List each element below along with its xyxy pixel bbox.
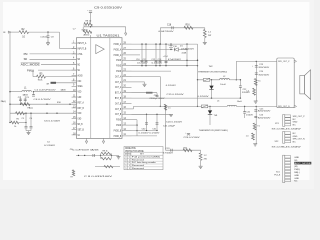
svg-text:47uF/100V: 47uF/100V	[168, 59, 182, 61]
capacitor C26b 820/100V	[254, 115, 257, 117]
junction	[244, 106, 245, 107]
junction	[211, 79, 212, 80]
svg-text:M3: M3	[78, 57, 81, 61]
junction	[111, 155, 112, 156]
pin notch N	[294, 105, 296, 108]
svg-text:PVDD_A: PVDD_A	[114, 53, 122, 57]
diode D2 thermistor A	[211, 80, 213, 98]
junction	[165, 106, 166, 107]
wire	[46, 76, 77, 78]
svg-text:1/100V: 1/100V	[246, 114, 254, 116]
junction	[197, 79, 198, 80]
wire	[29, 31, 60, 33]
svg-text:BST_A: BST_A	[115, 91, 122, 95]
svg-text:NC: NC	[293, 119, 297, 121]
pin 18 BST_B	[122, 97, 132, 99]
capacitor C24 820/100V	[255, 72, 258, 74]
junction	[186, 60, 187, 61]
svg-text:RST_B: RST_B	[78, 106, 85, 110]
wire OUT_B trunk	[132, 108, 134, 110]
svg-text:0.1uF/100V 3A/1B: 0.1uF/100V 3A/1B	[73, 148, 100, 151]
svg-text:M3_B: M3_B	[78, 122, 83, 126]
pin 19 BST_A	[122, 92, 132, 94]
svg-text:OUT_B: OUT_B	[115, 107, 122, 111]
pin 9 VREG	[72, 85, 77, 87]
svg-text:Reserved: Reserved	[132, 158, 145, 161]
svg-text:NC: NC	[293, 141, 297, 143]
wire	[10, 112, 77, 114]
svg-text:GND: GND	[294, 175, 299, 177]
junction	[146, 114, 147, 115]
resistor R20	[252, 133, 255, 140]
resistor R15 1.2 2W	[204, 28, 206, 30]
wire snubber column	[255, 61, 257, 101]
pin 5 M2	[72, 64, 77, 66]
pin 15 GND	[72, 118, 77, 120]
svg-text:PGND: PGND	[116, 64, 121, 68]
wire BST_A vertical	[159, 28, 161, 44]
resistor R23 small	[164, 104, 166, 110]
capacitor C22 1/100V	[239, 80, 241, 86]
wire trunk riser at 236	[235, 61, 237, 79]
junction	[145, 43, 146, 44]
wire vertical 197 lower	[197, 80, 199, 107]
junction	[197, 65, 198, 66]
junction	[170, 49, 171, 50]
junction	[146, 130, 147, 131]
wire	[11, 31, 19, 33]
pin 16 M3_B	[72, 123, 77, 125]
speaker terminal box	[277, 58, 294, 108]
svg-text:SPK_OUT_P: SPK_OUT_P	[293, 116, 306, 118]
wire bottom cap rows	[132, 130, 158, 132]
junction	[90, 26, 91, 27]
svg-text:OUT_A: OUT_A	[115, 80, 122, 84]
svg-text:PGND: PGND	[116, 69, 121, 73]
pin 27 PVDD_A	[122, 49, 132, 51]
wire stub row 3	[132, 54, 141, 56]
svg-text:4148: 4148	[182, 53, 188, 55]
pin 11 PVDD_B	[122, 135, 132, 137]
svg-text:C12: C12	[151, 59, 155, 61]
pin 1 INPUT_A	[72, 42, 77, 44]
junction	[46, 113, 47, 114]
connector X22 ST-COM-4S-CN4W	[272, 132, 306, 149]
pin 8 OSC	[72, 80, 77, 82]
pin 23 PGND	[122, 70, 132, 72]
ground mid 171	[169, 113, 173, 115]
svg-text:GND: GND	[294, 157, 299, 159]
wire BST_A row	[160, 27, 205, 29]
connector X21 ST-COM-4S-CN4W	[272, 115, 306, 131]
svg-text:OUT_B: OUT_B	[115, 101, 122, 105]
svg-text:U1 TAS5261: U1 TAS5261	[97, 35, 121, 38]
svg-text:THERMISTOR (SWITCHED): THERMISTOR (SWITCHED)	[199, 130, 228, 132]
svg-text:SPK_OUT_N: SPK_OUT_N	[278, 106, 290, 108]
junction	[9, 91, 10, 92]
ground AGND arrow	[47, 41, 49, 43]
svg-text:0.1/100V: 0.1/100V	[149, 133, 160, 135]
svg-text:VDD: VDD	[78, 111, 82, 115]
svg-text:AVDD: AVDD	[84, 33, 90, 36]
pin 11 GND	[72, 96, 77, 98]
wire PVDD_A top row	[132, 43, 198, 45]
svg-text:1.0: 1.0	[246, 135, 249, 137]
wire	[91, 24, 93, 27]
svg-text:0.1/100V: 0.1/100V	[44, 145, 56, 147]
svg-text:820/100V: 820/100V	[258, 117, 272, 119]
wire	[10, 91, 22, 93]
svg-text:7.5: 7.5	[257, 125, 260, 127]
wire bottom RC row	[76, 154, 116, 156]
svg-text:3A1B: 3A1B	[23, 94, 29, 97]
svg-text:R7: R7	[71, 177, 73, 179]
pin 22 OUT_A	[122, 76, 132, 78]
pin 15 OUT_B	[122, 113, 132, 115]
pin 18 NC	[72, 134, 77, 136]
junction	[186, 49, 187, 50]
junction	[160, 43, 161, 44]
junction	[78, 155, 79, 156]
svg-text:C6 0.1/100V: C6 0.1/100V	[44, 121, 61, 123]
capacitor C25 820/100V	[254, 109, 257, 111]
svg-text:NC: NC	[293, 125, 297, 127]
wire trunk to speaker	[236, 60, 276, 62]
svg-text:AGND: AGND	[78, 73, 83, 77]
svg-text:10uH: 10uH	[220, 84, 226, 86]
junction	[155, 65, 156, 66]
svg-text:PGND: PGND	[116, 123, 121, 127]
junction	[25, 104, 26, 105]
svg-text:ADC_MODE: ADC_MODE	[21, 63, 40, 67]
svg-text:0.1/100V: 0.1/100V	[152, 63, 163, 65]
svg-text:NC: NC	[294, 181, 298, 183]
junction	[186, 43, 187, 44]
junction	[186, 65, 187, 66]
svg-text:R8 10: R8 10	[86, 21, 92, 23]
junction	[197, 106, 198, 107]
svg-text:PA(L): PA(L)	[1, 100, 7, 103]
svg-text:3A1B: 3A1B	[61, 89, 67, 92]
wire vertical 187	[186, 44, 188, 66]
svg-text:0.1/100V: 0.1/100V	[166, 85, 177, 87]
resistor R18	[253, 88, 256, 95]
wire	[32, 70, 34, 77]
junction	[25, 122, 26, 123]
svg-text:PM(L): PM(L)	[294, 169, 300, 171]
junction	[170, 43, 171, 44]
pin PVDD bottom stub	[103, 138, 105, 141]
svg-text:PC1-8: PC1-8	[274, 175, 281, 177]
pin 16 OUT_B	[122, 108, 132, 110]
junction	[209, 106, 210, 107]
svg-text:PVDD_A: PVDD_A	[114, 42, 122, 46]
svg-text:ST-COM-4S-CN4W: ST-COM-4S-CN4W	[272, 146, 301, 148]
junction	[30, 113, 31, 114]
junction	[141, 65, 142, 66]
junction	[236, 79, 237, 80]
wire	[34, 91, 77, 93]
svg-text:OUT_A: OUT_A	[115, 74, 122, 78]
svg-text:SD: SD	[24, 57, 28, 61]
resistor R10 parallel	[100, 155, 102, 158]
svg-text:PA(L): PA(L)	[28, 107, 34, 110]
svg-text:PGND: PGND	[116, 118, 121, 122]
svg-text:C 8 0.033/100V: C 8 0.033/100V	[84, 176, 113, 178]
svg-text:C32: C32	[246, 111, 250, 113]
svg-text:0R: 0R	[47, 83, 50, 85]
ferrite bead L3	[146, 92, 153, 94]
svg-text:Reserved: Reserved	[132, 164, 145, 167]
junction	[25, 113, 26, 114]
svg-text:1.5: 1.5	[168, 108, 171, 110]
svg-text:10uH: 10uH	[237, 101, 242, 103]
ground bottom row	[116, 154, 119, 156]
svg-text:DC latching mode: DC latching mode	[132, 161, 157, 164]
svg-text:VDD: VDD	[78, 90, 82, 94]
svg-text:SET_B: SET_B	[78, 127, 85, 131]
page background	[0, 0, 314, 189]
pin 14 PGND	[122, 119, 132, 121]
svg-text:PA(L): PA(L)	[294, 171, 300, 174]
ground caps C5 C6	[25, 128, 27, 130]
svg-text:GND: GND	[78, 95, 82, 99]
pin 12 PVDD_B	[122, 130, 132, 132]
junction	[136, 124, 137, 125]
junction	[56, 113, 57, 114]
svg-text:C20 0.1/100V: C20 0.1/100V	[166, 122, 183, 124]
junction	[84, 155, 85, 156]
wire	[30, 58, 77, 60]
junction	[9, 122, 10, 123]
junction	[240, 79, 241, 80]
wire BST_B row	[166, 149, 201, 151]
junction	[145, 65, 146, 66]
wire vertical 160 to OUT_B row	[159, 77, 161, 107]
svg-text:820/100V: 820/100V	[259, 67, 270, 69]
junction	[156, 114, 157, 115]
pin GND bottom stub	[86, 138, 88, 141]
wire gnd stub row	[132, 81, 145, 83]
pin 17 OUT_B	[122, 103, 132, 105]
svg-text:0.1/100V: 0.1/100V	[137, 63, 148, 65]
svg-text:INPUT_A: INPUT_A	[78, 41, 87, 45]
junction	[47, 31, 48, 32]
junction	[159, 65, 160, 66]
svg-text:0.1/100V: 0.1/100V	[139, 133, 150, 135]
svg-text:CTRL: CTRL	[78, 52, 83, 56]
svg-text:C21 220pF: C21 220pF	[163, 126, 176, 128]
pin 26 PVDD_A	[122, 54, 132, 56]
wire row R5	[132, 70, 172, 72]
wire PGND row R13 ext	[132, 113, 147, 115]
svg-text:C1 0.47uF/100V: C1 0.47uF/100V	[35, 90, 57, 92]
pin 21 OUT_A	[122, 81, 132, 83]
wire ferrite row	[132, 92, 158, 94]
junction	[240, 97, 241, 98]
svg-text:OSC: OSC	[78, 79, 82, 83]
junction	[155, 43, 156, 44]
wire into IC top GVDD	[90, 35, 92, 38]
svg-text:VREG: VREG	[78, 84, 83, 88]
svg-text:NC: NC	[293, 133, 297, 135]
junction	[136, 130, 137, 131]
resistor R7 lower	[72, 170, 74, 176]
junction	[165, 65, 166, 66]
svg-text:820/100V: 820/100V	[258, 111, 272, 113]
wire	[83, 24, 85, 27]
pin 2 INPUT_B	[72, 48, 77, 50]
wire row 4 PGND	[132, 59, 198, 61]
pin 28 PVDD_A	[122, 43, 132, 45]
net ADC_MODE highlighted	[294, 162, 311, 165]
svg-text:2W: 2W	[204, 158, 207, 160]
pin 24 PGND	[122, 65, 132, 67]
svg-text:C9 0.033/100V: C9 0.033/100V	[94, 7, 123, 9]
svg-text:Full protection(SM): Full protection(SM)	[132, 155, 160, 158]
svg-text:2W: 2W	[208, 35, 211, 37]
svg-text:C26 0.1/100V: C26 0.1/100V	[184, 137, 201, 139]
pin 13 PGND	[122, 124, 132, 126]
ground snubber A	[254, 100, 258, 102]
svg-text:RST_A: RST_A	[78, 100, 85, 104]
junction	[100, 155, 101, 156]
connector X11 PC1-8	[274, 155, 311, 183]
svg-text:C4 0.1/100V: C4 0.1/100V	[34, 99, 52, 101]
junction	[46, 104, 47, 105]
diode D3 thermistor B	[209, 106, 211, 125]
svg-text:PGND: PGND	[116, 58, 121, 62]
pin 4 M3	[72, 58, 77, 60]
junction	[160, 106, 161, 107]
resistor R17 7.5	[254, 79, 257, 86]
svg-text:NC: NC	[78, 133, 81, 137]
svg-text:GND: GND	[78, 117, 82, 121]
svg-text:Reserved: Reserved	[132, 167, 145, 170]
svg-text:GND: GND	[294, 178, 299, 180]
junction	[211, 97, 212, 98]
svg-text:THERMISTOR (SWITCHED): THERMISTOR (SWITCHED)	[198, 72, 227, 74]
junction	[159, 43, 160, 44]
svg-text:(M): (M)	[294, 166, 297, 168]
wire OUT row R10	[132, 97, 241, 99]
ground snubber B	[253, 143, 257, 145]
wire GVDD rail	[84, 26, 126, 28]
wire	[10, 103, 77, 105]
thermistor TH1 body	[201, 105, 207, 108]
ground BST top	[203, 41, 207, 43]
wire PGND row to ground	[132, 113, 172, 115]
svg-text:M1: M1	[78, 68, 81, 72]
junction	[197, 60, 198, 61]
junction	[165, 43, 166, 44]
svg-text:1.0: 1.0	[246, 91, 249, 93]
svg-text:PVDD_A: PVDD_A	[114, 47, 122, 51]
pin notch P	[294, 60, 296, 63]
wire BST_B feed down	[165, 106, 167, 150]
junction	[256, 106, 257, 107]
svg-text:OUT_A: OUT_A	[115, 85, 122, 89]
svg-text:ADC_MODE: ADC_MODE	[295, 162, 312, 165]
capacitor C17	[156, 93, 158, 96]
svg-text:INPUT_B: INPUT_B	[78, 46, 87, 50]
svg-text:0.1/100V: 0.1/100V	[198, 96, 210, 98]
capacitor C16 polarized	[170, 44, 172, 45]
svg-text:0.047/100V: 0.047/100V	[159, 31, 175, 33]
wire OUT_A trunk	[132, 65, 198, 67]
svg-text:PVDD_B: PVDD_B	[114, 128, 122, 132]
wire input to U1 pin 2	[59, 32, 61, 48]
ground BST bottom	[199, 165, 203, 167]
capacitor C32 1/100V	[244, 106, 246, 111]
wire snubber column B	[255, 106, 257, 143]
svg-text:GND: GND	[293, 122, 298, 124]
capacitor C26	[187, 132, 190, 134]
mode table	[124, 147, 163, 170]
svg-text:C15 0.1/100V: C15 0.1/100V	[167, 94, 185, 96]
svg-text:PM: PM	[24, 52, 28, 56]
junction	[156, 130, 157, 131]
svg-text:47uF/100V: 47uF/100V	[181, 49, 195, 51]
junction	[33, 91, 34, 92]
pin 10 VDD	[72, 91, 77, 93]
resistor R19 7.5	[253, 123, 256, 130]
thermistor TH2 body	[203, 78, 209, 81]
capacitor C9 polarized	[89, 10, 92, 12]
pin 7 AGND	[72, 75, 77, 77]
wire 0R to pin 8	[56, 82, 77, 84]
svg-text:7.5: 7.5	[258, 81, 261, 83]
pin 17 SET_B	[72, 129, 77, 131]
pin 3 CTRL	[72, 53, 77, 55]
junction	[197, 60, 198, 61]
ground right 144	[143, 83, 147, 85]
wire left input rail	[9, 32, 11, 122]
op-amp U1 TAS5261 main IC	[77, 35, 123, 139]
svg-text:SD: SD	[294, 160, 297, 162]
svg-text:ST-COM-4S-CN4W: ST-COM-4S-CN4W	[272, 128, 301, 130]
supply arrow VDD into IC	[125, 27, 127, 33]
svg-text:SPK_OUT_N: SPK_OUT_N	[293, 139, 305, 141]
junction	[141, 43, 142, 44]
pin 25 PGND	[122, 59, 132, 61]
junction	[20, 104, 21, 105]
pin 20 OUT_A	[122, 86, 132, 88]
svg-text:PVDD_B: PVDD_B	[114, 134, 122, 138]
svg-text:820/100V: 820/100V	[259, 75, 270, 77]
svg-text:GND: GND	[293, 136, 298, 138]
wire PVDD_B bus	[132, 119, 138, 121]
junction	[9, 104, 10, 105]
schematic sheet	[3, 2, 310, 180]
wire row R6 BST_B	[132, 76, 161, 78]
svg-text:BST_B: BST_B	[115, 96, 122, 100]
wire	[38, 69, 77, 71]
pin 14 VDD	[72, 112, 77, 114]
speaker driver	[300, 70, 311, 100]
capacitor C6 series	[92, 154, 94, 157]
junction	[69, 104, 70, 105]
resistor R12 mid	[95, 166, 120, 168]
pin 12 RST_A	[72, 102, 77, 104]
wire	[30, 53, 77, 55]
svg-text:OUT_B: OUT_B	[115, 112, 122, 116]
svg-text:SPK_OUT_P: SPK_OUT_P	[278, 61, 290, 63]
wire	[41, 64, 77, 66]
svg-text:M2: M2	[78, 63, 81, 67]
pin 13 RST_B	[72, 107, 77, 109]
resistor R22 1.2 2W	[200, 150, 202, 153]
